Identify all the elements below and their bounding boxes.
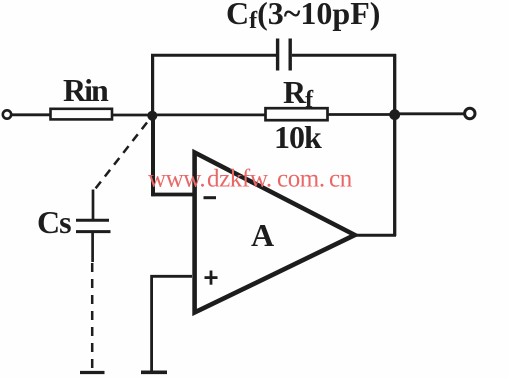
wire node N1 to Rf xyxy=(152,114,266,117)
wire vertical node N1 up to feedback top xyxy=(151,54,154,116)
svg-text:Cs: Cs xyxy=(37,204,71,240)
ground non-inverting input xyxy=(141,370,167,374)
wire node N2 to output terminal xyxy=(395,112,464,115)
capacitor Cf left plate xyxy=(276,39,279,71)
svg-text:10k: 10k xyxy=(274,119,322,155)
node N1 junction dot xyxy=(147,111,157,121)
wire Rin to node N1 xyxy=(112,114,153,117)
wire vertical node N1 down to inverting input xyxy=(151,115,155,196)
wire op-amp output to right vertical xyxy=(353,234,396,237)
capacitor Cs bottom plate xyxy=(76,230,111,233)
wire top feedback right segment xyxy=(292,54,396,57)
svg-text:www.dzkfw.com.cn: www.dzkfw.com.cn xyxy=(148,166,353,193)
input terminal xyxy=(3,110,11,118)
wire Cs top stub xyxy=(92,190,95,220)
minus sign inverting input xyxy=(204,196,217,199)
wire inverting input into op-amp xyxy=(152,193,194,197)
dashed wire node N1 to stray capacitor Cs xyxy=(96,123,148,189)
wire top feedback left segment xyxy=(151,54,277,57)
svg-text:Rf: Rf xyxy=(283,74,314,113)
wire Cs bottom stub xyxy=(91,233,94,263)
plus sign non-inverting input xyxy=(205,271,218,285)
wire vertical right feedback down to output node xyxy=(393,54,396,236)
dashed wire Cs to ground xyxy=(91,263,94,371)
resistor Rin xyxy=(51,109,113,120)
wire input terminal to Rin xyxy=(12,113,52,116)
output terminal xyxy=(465,108,475,118)
op-amp U1 triangle xyxy=(195,153,355,313)
svg-text:Rin: Rin xyxy=(63,72,109,108)
capacitor Cs top plate xyxy=(76,219,109,222)
ground Cs xyxy=(80,371,105,374)
capacitor Cf right plate xyxy=(289,39,292,71)
resistor Rf xyxy=(266,108,328,120)
svg-text:Cf(3~10pF): Cf(3~10pF) xyxy=(226,0,380,34)
node N2 junction dot xyxy=(389,109,400,120)
wire Rf to node N2 xyxy=(328,113,396,116)
svg-text:A: A xyxy=(251,217,274,253)
wire non-inverting input xyxy=(152,276,192,371)
